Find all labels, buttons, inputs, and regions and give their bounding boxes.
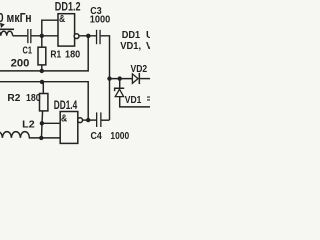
- svg-text:DD1.4: DD1.4: [54, 98, 78, 112]
- svg-text:C1: C1: [23, 45, 33, 56]
- svg-text:L2: L2: [22, 120, 35, 131]
- svg-text:R2: R2: [7, 93, 20, 104]
- svg-text:&: &: [61, 114, 67, 125]
- svg-text:R1: R1: [50, 50, 61, 61]
- svg-text:200: 200: [11, 57, 30, 69]
- svg-text:C4: C4: [91, 131, 103, 142]
- svg-text:1000: 1000: [110, 131, 129, 142]
- svg-text:VD2: VD2: [131, 64, 148, 75]
- svg-text:U: U: [146, 30, 150, 41]
- svg-text:=: =: [147, 94, 151, 105]
- svg-text:180: 180: [65, 50, 81, 61]
- svg-text:DD1: DD1: [122, 30, 141, 41]
- svg-text:1000: 1000: [90, 14, 111, 25]
- svg-text:&: &: [59, 14, 65, 25]
- svg-text:VD1,: VD1,: [120, 41, 141, 52]
- svg-text:V: V: [146, 41, 150, 52]
- svg-text:DD1.2: DD1.2: [55, 0, 81, 14]
- svg-text:180: 180: [26, 93, 41, 104]
- svg-text:VD1: VD1: [125, 95, 142, 106]
- svg-text:0 мкГн: 0 мкГн: [0, 10, 32, 25]
